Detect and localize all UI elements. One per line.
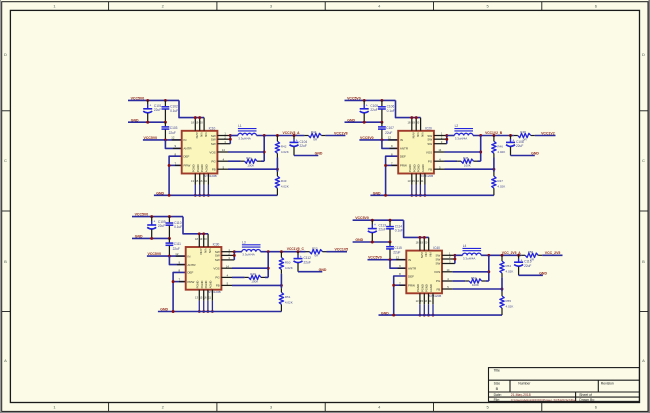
pin SW1: [217, 135, 230, 137]
svg-text:PGND: PGND: [196, 281, 200, 289]
svg-text:22uF: 22uF: [379, 228, 386, 232]
resistor R43 4.02K (divider bottom): [275, 176, 289, 188]
wire gnd rail: [154, 194, 278, 196]
svg-text:12: 12: [388, 136, 392, 140]
svg-text:0.1uF: 0.1uF: [395, 229, 403, 233]
capacitor C112 22uF (output, polarized): [294, 252, 312, 272]
svg-text:22uF: 22uF: [370, 108, 377, 112]
svg-text:DEF: DEF: [408, 274, 414, 278]
wire corner to IC top pins: [396, 100, 421, 117]
resistor R56 0R (series output): [525, 250, 538, 261]
svg-text:AGND: AGND: [421, 164, 425, 172]
zone tick (top): [433, 2, 435, 11]
resistor R42 4.02K (divider top): [275, 141, 289, 154]
junction: [517, 254, 520, 257]
svg-text:22uF: 22uF: [524, 264, 531, 268]
svg-text:VIN: VIN: [204, 248, 208, 253]
junction: [150, 237, 153, 240]
svg-text:SW: SW: [427, 138, 432, 142]
svg-text:GND: GND: [315, 152, 323, 156]
wire FB: [232, 284, 281, 286]
svg-text:VIN: VIN: [429, 252, 433, 257]
wire IN: [147, 255, 186, 257]
wire SW tie: [233, 252, 235, 260]
capacitor C104 22uF (output, polarized): [290, 136, 308, 156]
svg-text:L4: L4: [463, 244, 467, 248]
op-amp / regulator IC IC20: [398, 126, 434, 178]
junction: [492, 168, 495, 171]
zone tick (top): [541, 2, 543, 11]
pin AVIN (top): [198, 234, 200, 247]
pin VIN (top): [428, 237, 430, 250]
wire divider top: [280, 252, 282, 258]
svg-text:FB: FB: [436, 287, 440, 291]
junction: [276, 168, 279, 171]
wire top VIN rail: [132, 216, 183, 218]
pin VIN (top): [199, 118, 201, 131]
wire VOS: [228, 151, 264, 153]
wire DEF/PRW tie to GND: [173, 272, 186, 311]
svg-text:PRW: PRW: [408, 284, 415, 288]
svg-text:100K: 100K: [251, 280, 258, 284]
pin VOS: [442, 271, 453, 273]
zone tick (top): [324, 2, 326, 11]
wire PRW stub: [394, 284, 407, 286]
resistor R48 0R (series output): [518, 130, 531, 141]
junction: [423, 314, 426, 317]
svg-text:4.02K: 4.02K: [285, 301, 293, 305]
svg-text:+: +: [153, 220, 155, 224]
wire SW to inductor: [455, 254, 463, 256]
wire top VIN rail: [128, 99, 179, 101]
svg-text:PGND: PGND: [416, 284, 420, 292]
wire PRW stub: [169, 164, 182, 166]
svg-text:ANTR: ANTR: [183, 147, 192, 151]
zone tick (bottom): [541, 403, 543, 412]
wire SW tie: [446, 136, 448, 144]
junction: [164, 121, 167, 124]
svg-text:PRW: PRW: [183, 164, 190, 168]
svg-text:IN: IN: [408, 258, 411, 262]
junction: [297, 250, 300, 253]
svg-text:PG: PG: [215, 276, 220, 280]
wire VOS/PG sense: [263, 136, 265, 162]
svg-text:DEF: DEF: [187, 271, 193, 275]
svg-text:0.1uF: 0.1uF: [170, 109, 178, 113]
svg-text:R42: R42: [281, 144, 287, 148]
wire PG: [228, 160, 241, 162]
junction: [207, 310, 210, 313]
svg-text:D: D: [642, 52, 645, 57]
svg-text:PG: PG: [211, 159, 216, 163]
junction: [263, 134, 266, 137]
junction: [229, 138, 232, 141]
pin FB: [217, 168, 228, 170]
wire DEF/PRW tie to GND: [386, 156, 399, 195]
svg-text:SW: SW: [215, 258, 220, 262]
page shadow edges: [0, 0, 2, 413]
junction: [198, 310, 201, 313]
junction: [363, 99, 366, 102]
pin AGND (bottom): [207, 174, 209, 185]
junction: [267, 267, 270, 270]
junction: [380, 99, 383, 102]
svg-text:VIN: VIN: [200, 132, 204, 137]
wire upper gnd: [353, 241, 390, 243]
wire output cap to gnd: [294, 155, 318, 157]
svg-text:Size: Size: [494, 382, 501, 386]
svg-text:+: +: [296, 139, 298, 143]
svg-text:R43: R43: [281, 179, 287, 183]
junction: [363, 121, 366, 124]
svg-text:4.02K: 4.02K: [497, 185, 505, 189]
wire VOS/PG sense: [267, 252, 269, 278]
svg-text:SW: SW: [435, 257, 440, 261]
svg-text:4.02K: 4.02K: [506, 270, 514, 274]
wire divider to gnd rail: [280, 304, 282, 311]
pin PGND (bottom): [207, 290, 209, 301]
svg-text:VIN: VIN: [421, 132, 425, 137]
svg-text:IC30: IC30: [213, 243, 220, 247]
pin SW2: [217, 138, 230, 140]
junction: [233, 254, 236, 257]
svg-text:Revision: Revision: [601, 381, 614, 385]
svg-text:VCC1V2_B: VCC1V2_B: [485, 131, 503, 135]
svg-text:VCC1V8: VCC1V8: [334, 131, 348, 135]
junction: [168, 255, 171, 258]
svg-text:SY8120B: SY8120B: [421, 174, 434, 178]
capacitor C103 22uF: [162, 122, 178, 140]
junction: [389, 258, 392, 261]
svg-text:VCC_2V5: VCC_2V5: [545, 251, 561, 255]
svg-text:22uF: 22uF: [158, 224, 165, 228]
junction: [487, 270, 490, 273]
wire upper gnd: [345, 121, 382, 123]
junction: [419, 194, 422, 197]
svg-text:A: A: [4, 358, 7, 363]
wire DEF/PRW tie to GND: [394, 276, 407, 315]
junction: [389, 219, 392, 222]
pin AGND (bottom): [432, 293, 434, 304]
op-amp / regulator IC IC40: [406, 246, 442, 298]
svg-text:FB: FB: [212, 168, 216, 172]
wire VOS: [445, 151, 481, 153]
wire VOS: [453, 271, 489, 273]
svg-text:R46: R46: [497, 144, 503, 148]
junction: [479, 151, 482, 154]
svg-text:22uF: 22uF: [173, 247, 180, 251]
svg-text:C: C: [4, 158, 7, 163]
svg-text:L1: L1: [238, 124, 242, 128]
svg-text:AGND: AGND: [429, 284, 433, 292]
pin PGND (bottom): [199, 174, 201, 185]
svg-text:22uF: 22uF: [154, 108, 161, 112]
pin SW2: [221, 254, 234, 256]
inductor L1 3.3uH: [238, 124, 257, 140]
wire FB: [445, 168, 494, 170]
svg-text:3.3uH/4A: 3.3uH/4A: [455, 137, 468, 141]
svg-text:VOS: VOS: [213, 267, 219, 271]
zone tick (left): [2, 110, 11, 112]
junction: [410, 116, 413, 119]
junction: [389, 241, 392, 244]
wire gnd rail: [158, 311, 282, 313]
pin PGND (bottom): [423, 293, 425, 304]
capacitor C102 0.1uF: [162, 100, 179, 122]
svg-text:Drawn By:: Drawn By:: [579, 398, 595, 402]
wire PG resistor to sense: [257, 160, 261, 162]
pin PGND (bottom): [203, 290, 205, 301]
junction: [280, 250, 283, 253]
wire SW to inductor: [234, 251, 242, 253]
svg-text:R50: R50: [285, 261, 291, 265]
svg-text:C:\Users\Admin\DCDC\Power_SY81: C:\Users\Admin\DCDC\Power_SY8120.SchDoc: [511, 398, 577, 402]
wire IN: [143, 139, 182, 141]
junction: [280, 284, 283, 287]
svg-text:AGND: AGND: [205, 164, 209, 172]
svg-text:PRW: PRW: [187, 280, 194, 284]
wire divider to gnd rail: [276, 188, 278, 195]
wire inductor to output: [257, 135, 305, 137]
svg-text:100K: 100K: [247, 163, 254, 167]
svg-text:IN: IN: [187, 254, 190, 258]
svg-text:VIN: VIN: [424, 252, 428, 257]
wire divider top: [276, 136, 278, 142]
wire output cap to gnd: [519, 274, 543, 276]
wire PG resistor to sense: [474, 160, 478, 162]
wire divider to gnd rail: [493, 188, 495, 195]
pin VOS: [221, 267, 232, 269]
svg-text:100K: 100K: [472, 283, 479, 287]
svg-text:+: +: [300, 255, 302, 259]
junction: [509, 134, 512, 137]
wire EN tie: [390, 260, 406, 269]
svg-text:12: 12: [171, 136, 175, 140]
svg-text:VOS: VOS: [426, 150, 432, 154]
svg-text:DEF: DEF: [183, 155, 189, 159]
junction: [427, 314, 430, 317]
wire divider mid: [280, 270, 282, 274]
resistor R55 4.02K (divider bottom): [500, 296, 514, 308]
svg-text:File:: File:: [494, 398, 500, 402]
wire corner to IC top pins: [404, 220, 429, 237]
svg-text:A: A: [642, 358, 645, 363]
wire EN tie: [165, 140, 181, 149]
svg-text:PGND: PGND: [200, 281, 204, 289]
junction: [453, 254, 456, 257]
wire gnd rail: [379, 314, 503, 316]
pin PG: [221, 276, 232, 278]
svg-text:R52: R52: [312, 246, 318, 250]
resistor R52 0R (series output): [310, 246, 323, 257]
pin SW2: [442, 258, 455, 260]
svg-text:R55: R55: [506, 299, 512, 303]
svg-text:22uF: 22uF: [304, 260, 311, 264]
inductor L3 3.3uH: [242, 240, 261, 256]
wire IN: [359, 139, 398, 141]
pin SW3: [217, 143, 230, 145]
junction: [380, 121, 383, 124]
op-amp / regulator IC IC10: [182, 126, 218, 178]
junction: [164, 138, 167, 141]
wire IN: [368, 259, 407, 261]
svg-text:B: B: [4, 259, 7, 264]
pin PGND (bottom): [411, 174, 413, 185]
svg-text:PGND: PGND: [421, 284, 425, 292]
svg-text:R47: R47: [497, 179, 503, 183]
wire FB: [228, 168, 277, 170]
junction: [445, 134, 448, 137]
inductor L2 3.3uH: [454, 124, 473, 140]
pin AVIN (top): [411, 118, 413, 131]
svg-text:Sheet of: Sheet of: [579, 393, 592, 397]
svg-text:AVIN: AVIN: [412, 132, 416, 138]
inductor L4 3.3uH: [463, 244, 482, 260]
junction: [203, 194, 206, 197]
junction: [479, 134, 482, 137]
pin FB: [221, 284, 232, 286]
svg-text:3.3uH/4A: 3.3uH/4A: [238, 137, 251, 141]
wire inductor to output: [481, 254, 521, 256]
wire gnd rail: [370, 194, 494, 196]
junction: [150, 215, 153, 218]
svg-text:Title: Title: [494, 369, 500, 373]
zone tick (bottom): [433, 403, 435, 412]
junction: [168, 215, 171, 218]
junction: [263, 151, 266, 154]
pin SW1: [221, 251, 234, 253]
svg-text:VOS: VOS: [434, 270, 440, 274]
junction: [501, 254, 504, 257]
svg-text:R45: R45: [463, 156, 469, 160]
capacitor C105 22uF (polarized input): [360, 100, 379, 122]
pin PGND (bottom): [428, 293, 430, 304]
wire output cap to gnd: [298, 271, 322, 273]
svg-text:4.02K: 4.02K: [497, 150, 505, 154]
pin PGND (bottom): [415, 174, 417, 185]
capacitor C106 0.1uF: [378, 100, 395, 122]
svg-text:Date:: Date:: [494, 393, 502, 397]
svg-text:ANTR: ANTR: [400, 147, 409, 151]
resistor R53 100K (PG pull-up): [469, 276, 481, 287]
wire VOS/PG sense: [488, 255, 490, 281]
svg-text:B: B: [642, 259, 645, 264]
svg-text:PGND: PGND: [192, 164, 196, 172]
pin VIN (top): [207, 234, 209, 247]
resistor R50 4.02K (divider top): [279, 258, 293, 271]
resistor R45 100K (PG pull-up): [461, 156, 473, 167]
wire to output port: [323, 251, 327, 253]
svg-text:VCC1V5_C: VCC1V5_C: [287, 247, 305, 251]
op-amp / regulator IC IC30: [186, 243, 222, 295]
wire SW to inductor: [230, 135, 238, 137]
junction: [371, 219, 374, 222]
pin VIN (top): [203, 234, 205, 247]
resistor R51 4.02K (divider bottom): [279, 292, 293, 304]
junction: [445, 138, 448, 141]
svg-text:FB: FB: [216, 284, 220, 288]
junction: [424, 194, 427, 197]
resistor R44 0R (series output): [308, 130, 321, 141]
svg-text:IN: IN: [400, 138, 403, 142]
svg-text:PG: PG: [436, 279, 441, 283]
svg-text:L2: L2: [455, 124, 459, 128]
svg-text:12: 12: [396, 255, 400, 259]
zone tick (left): [2, 311, 11, 313]
resistor R41 100K (PG pull-up): [245, 156, 257, 167]
svg-text:22uF: 22uF: [169, 131, 176, 135]
junction: [384, 194, 387, 197]
junction: [172, 280, 175, 283]
junction: [380, 138, 383, 141]
junction: [453, 258, 456, 261]
title block: [489, 368, 640, 402]
wire divider to gnd rail: [501, 308, 503, 315]
pin PGND (bottom): [198, 290, 200, 301]
pin AVIN (top): [194, 118, 196, 131]
wire VOS/PG sense: [480, 136, 482, 162]
junction: [164, 99, 167, 102]
junction: [392, 314, 395, 317]
pin PG: [442, 280, 453, 282]
resistor R46 4.02K (divider top): [492, 141, 506, 154]
svg-text:+: +: [521, 258, 523, 262]
wire to output port: [538, 254, 542, 256]
pin VIN (top): [420, 118, 422, 131]
junction: [168, 237, 171, 240]
svg-text:SY8120B: SY8120B: [208, 290, 221, 294]
junction: [202, 232, 205, 235]
capacitor C107 22uF: [378, 122, 394, 140]
junction: [293, 134, 296, 137]
resistor R54 4.02K (divider top): [500, 261, 514, 274]
pin SW1: [442, 254, 455, 256]
svg-text:AVIN: AVIN: [199, 248, 203, 254]
svg-text:PGND: PGND: [196, 164, 200, 172]
junction: [168, 164, 171, 167]
svg-text:C107: C107: [386, 126, 394, 130]
svg-text:L3: L3: [242, 240, 246, 244]
svg-text:IC40: IC40: [433, 246, 440, 250]
junction: [198, 232, 201, 235]
resistor R47 4.02K (divider bottom): [492, 176, 506, 188]
svg-text:ANTR: ANTR: [187, 263, 196, 267]
zone tick (left): [2, 210, 11, 212]
svg-text:GND: GND: [319, 268, 327, 272]
wire to output port: [321, 135, 325, 137]
junction: [384, 164, 387, 167]
wire FB: [453, 288, 502, 290]
capacitor C111 22uF: [166, 238, 182, 256]
svg-text:AVIN: AVIN: [195, 132, 199, 138]
junction: [194, 194, 197, 197]
pin PG: [434, 160, 445, 162]
pin VOS: [434, 151, 445, 153]
svg-text:VIN: VIN: [208, 248, 212, 253]
svg-text:22uF: 22uF: [300, 144, 307, 148]
junction: [392, 284, 395, 287]
pin PGND (bottom): [419, 174, 421, 185]
junction: [487, 254, 490, 257]
svg-text:VOS: VOS: [209, 150, 215, 154]
svg-text:SW: SW: [215, 254, 220, 258]
wire corner to IC top pins: [179, 100, 204, 117]
wire inductor to output: [473, 135, 514, 137]
wire PG: [232, 276, 245, 278]
svg-text:PGND: PGND: [408, 164, 412, 172]
svg-text:PGND: PGND: [200, 164, 204, 172]
wire EN tie: [382, 140, 398, 149]
